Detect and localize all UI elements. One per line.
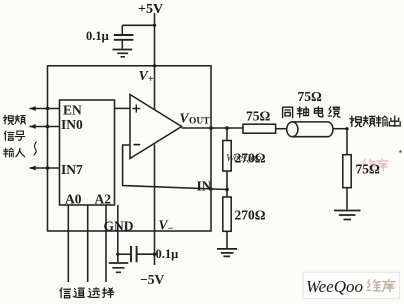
op-amp U1 triangle [130, 95, 182, 159]
svg-text:270Ω: 270Ω [235, 208, 266, 223]
svg-text:WeeQoo: WeeQoo [306, 277, 363, 296]
resistor R2b 270ohm [223, 197, 231, 231]
ground for GND pin [109, 263, 129, 272]
svg-text:270Ω: 270Ω [235, 151, 266, 166]
op-amp + sign [132, 105, 140, 113]
pink watermark fragment [363, 159, 388, 170]
wire GND pin down [117, 205, 119, 262]
wire C2 left to GND line [118, 253, 131, 255]
svg-text:75Ω: 75Ω [356, 162, 381, 177]
svg-text:IN0: IN0 [61, 117, 83, 132]
arrowhead EN [30, 106, 36, 111]
junction IN pin on box edge [209, 187, 212, 190]
svg-text:0.1μ: 0.1μ [156, 247, 179, 261]
label CJK: coax cable [283, 107, 293, 117]
label CJK: video output [350, 116, 362, 127]
node video output [345, 127, 348, 130]
label CJK: video signal input (left) [3, 115, 13, 124]
capacitor C1 plates [114, 35, 134, 40]
input brace [34, 142, 37, 156]
wire A0 select line [67, 205, 69, 282]
op-amp - sign [134, 144, 141, 146]
wire A1 select line [87, 205, 89, 282]
junction C1 branch on +5V line [153, 24, 156, 27]
junction IN0 pin [46, 125, 50, 129]
wire VOUT node down to R2a [226, 128, 228, 141]
wire IN7 input [30, 167, 60, 169]
mux box [60, 100, 115, 205]
junction V+ pin on box top [153, 64, 156, 67]
wire node down to R3 [346, 129, 348, 155]
capacitor C2 plates [131, 246, 137, 262]
wire V- supply [154, 145, 156, 266]
svg-text:GND: GND [104, 219, 134, 234]
wire +5V vertical [154, 13, 156, 110]
IC outer box U1 [48, 66, 212, 231]
svg-text:IN: IN [197, 179, 212, 194]
watermark bottom right [303, 272, 400, 298]
junction C2 to V- line [153, 253, 156, 256]
label CJK: channel select [60, 288, 71, 298]
ground under C1 [113, 50, 133, 57]
wire EN input [30, 108, 60, 110]
svg-text:75Ω: 75Ω [246, 109, 271, 124]
wire cap branch [122, 25, 154, 35]
node A divider top [225, 126, 229, 130]
node B divider mid [225, 188, 229, 192]
svg-text:EN: EN [63, 103, 82, 118]
svg-text:75Ω: 75Ω [298, 89, 323, 104]
wire cap to ground [121, 40, 123, 49]
ground under R2b [217, 249, 237, 257]
ground under R3 [334, 211, 361, 220]
wire coax to output node [333, 128, 347, 130]
paper fleck [399, 150, 402, 153]
arrowhead IN7 [30, 166, 36, 171]
wire R1 to coax [276, 128, 287, 130]
resistor R2a 270ohm [223, 141, 231, 172]
wire feedback from - input to IN pin [123, 145, 227, 190]
svg-text:−5V: −5V [140, 272, 164, 287]
wire mux to op-amp + [115, 107, 131, 109]
svg-text:OUT: OUT [189, 117, 210, 127]
svg-text:+5V: +5V [138, 2, 163, 17]
coax cable [287, 122, 298, 137]
wire IN0 input [30, 126, 60, 128]
wire R2b to ground [226, 231, 228, 248]
svg-text:IN7: IN7 [61, 162, 83, 177]
wire R2a to R2b [226, 171, 228, 197]
wire C2 right to V- line [137, 253, 155, 255]
wire op-amp output [182, 127, 243, 129]
junction C2 to GND wire [116, 253, 119, 256]
resistor R3 75ohm load [343, 155, 351, 188]
arrowhead IN0 [30, 124, 36, 129]
svg-text:A2: A2 [95, 192, 112, 207]
resistor R1 75ohm [243, 124, 276, 133]
svg-text:0.1μ: 0.1μ [86, 29, 109, 43]
svg-text:V: V [180, 111, 190, 126]
junction EN pin [46, 107, 50, 111]
wire A2 select line [105, 205, 107, 282]
svg-text:A0: A0 [65, 192, 82, 207]
junction VOUT pin on box edge [209, 126, 213, 130]
junction IN7 pin [46, 166, 50, 170]
wire R3 to ground [346, 188, 348, 210]
